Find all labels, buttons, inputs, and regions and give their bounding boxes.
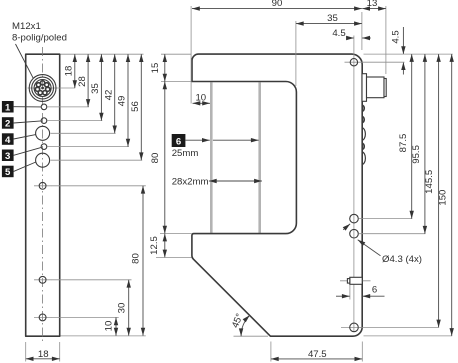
callout box 6 with leader to optical axes	[172, 134, 259, 148]
svg-text:28x2mm: 28x2mm	[172, 176, 209, 187]
callout box 3	[2, 147, 41, 162]
connector M12 front	[28, 75, 76, 102]
bottom right hole	[341, 323, 362, 332]
dim 80 (left view, lower)	[51, 186, 146, 336]
leader to connector	[16, 44, 34, 79]
big hole 4	[36, 126, 50, 140]
dim 145.5	[359, 54, 440, 327]
dim 47.5	[271, 342, 362, 362]
dim 15	[150, 54, 191, 81]
dim 30	[51, 280, 132, 336]
small hole 1	[41, 104, 47, 110]
svg-text:4: 4	[5, 135, 11, 146]
svg-text:95.5: 95.5	[411, 145, 422, 164]
dim 80 (fork opening)	[150, 82, 165, 234]
side bumps (LEDs / buttons)	[362, 105, 365, 164]
svg-text:80: 80	[150, 153, 161, 164]
45 degree angle dim	[230, 312, 268, 336]
dim 28	[48, 54, 90, 107]
dim 42	[51, 54, 116, 133]
svg-text:5: 5	[5, 167, 11, 178]
svg-text:25mm: 25mm	[172, 148, 199, 159]
top extension line over dim fan	[61, 53, 144, 55]
svg-text:87.5: 87.5	[398, 134, 409, 153]
svg-text:13: 13	[367, 0, 378, 9]
mid right holes	[350, 214, 359, 223]
dim 6 (clamp)	[336, 285, 385, 300]
svg-text:42: 42	[103, 90, 114, 101]
top edge extension right	[364, 53, 453, 55]
small hole 2	[41, 118, 47, 124]
svg-text:18: 18	[64, 66, 75, 77]
28x2mm dim	[172, 176, 262, 187]
optical axis bar right	[258, 82, 261, 233]
screw hole top right	[345, 59, 405, 66]
long centerline through right-side holes	[353, 36, 355, 332]
svg-text:47.5: 47.5	[308, 349, 327, 360]
dim 13	[362, 0, 386, 74]
dim 150	[364, 54, 453, 336]
svg-text:8-polig/poled: 8-polig/poled	[12, 33, 67, 44]
svg-text:56: 56	[130, 101, 141, 112]
svg-text:80: 80	[131, 253, 142, 264]
M12 connector side	[362, 74, 386, 102]
svg-text:2: 2	[5, 119, 10, 130]
svg-text:Ø4.3 (4x): Ø4.3 (4x)	[382, 254, 422, 265]
dim 56	[51, 54, 143, 160]
dim 4.5 horizontal (screw hole to edge)	[332, 28, 370, 39]
svg-text:10: 10	[104, 321, 115, 332]
dim 35 (top)	[296, 13, 362, 86]
big hole 5	[36, 153, 50, 167]
small hole 3	[41, 144, 47, 150]
dim 90	[192, 0, 362, 50]
diameter label with leaders	[343, 224, 422, 265]
svg-text:90: 90	[272, 0, 283, 9]
svg-text:4.5: 4.5	[332, 28, 345, 39]
callout box 4	[2, 133, 36, 146]
svg-text:M12x1: M12x1	[12, 21, 41, 32]
svg-text:10: 10	[195, 92, 206, 103]
fork body outline	[192, 54, 362, 336]
svg-text:35: 35	[90, 83, 101, 94]
svg-text:30: 30	[116, 303, 127, 314]
svg-text:35: 35	[327, 13, 338, 24]
svg-text:12.5: 12.5	[149, 236, 160, 255]
bracket body outline	[26, 54, 60, 336]
svg-text:6: 6	[372, 285, 377, 296]
dim 10 (pocket)	[193, 92, 211, 103]
dim 35	[48, 54, 103, 120]
svg-text:3: 3	[5, 151, 10, 162]
clamp feature bottom right	[340, 277, 371, 284]
dim 49	[48, 54, 129, 146]
svg-text:145.5: 145.5	[424, 170, 435, 194]
svg-text:15: 15	[150, 63, 161, 74]
callout box 2	[2, 117, 41, 130]
gray extension vertical left of body (90 dim)	[190, 6, 192, 104]
svg-text:1: 1	[5, 103, 11, 114]
dim 12.5	[149, 234, 192, 258]
dim 10 (left view)	[51, 317, 146, 336]
svg-text:28: 28	[77, 76, 88, 87]
callout box 5	[2, 162, 36, 178]
svg-text:49: 49	[117, 96, 128, 107]
svg-text:6: 6	[176, 137, 181, 148]
dim 87.5	[359, 54, 413, 219]
svg-text:150: 150	[438, 190, 449, 206]
callout box 1	[2, 101, 41, 114]
mounting holes with crosshair	[34, 182, 51, 189]
centerline	[42, 47, 44, 341]
dim 18 (vertical fan)	[64, 54, 75, 88]
dim 95.5	[359, 54, 426, 234]
optical axis bar left	[210, 82, 213, 233]
svg-text:4.5: 4.5	[390, 30, 401, 43]
dim 4.5 vertical (top edge to hole)	[390, 27, 403, 75]
svg-text:18: 18	[38, 349, 49, 360]
dim 18 bottom	[26, 342, 60, 362]
